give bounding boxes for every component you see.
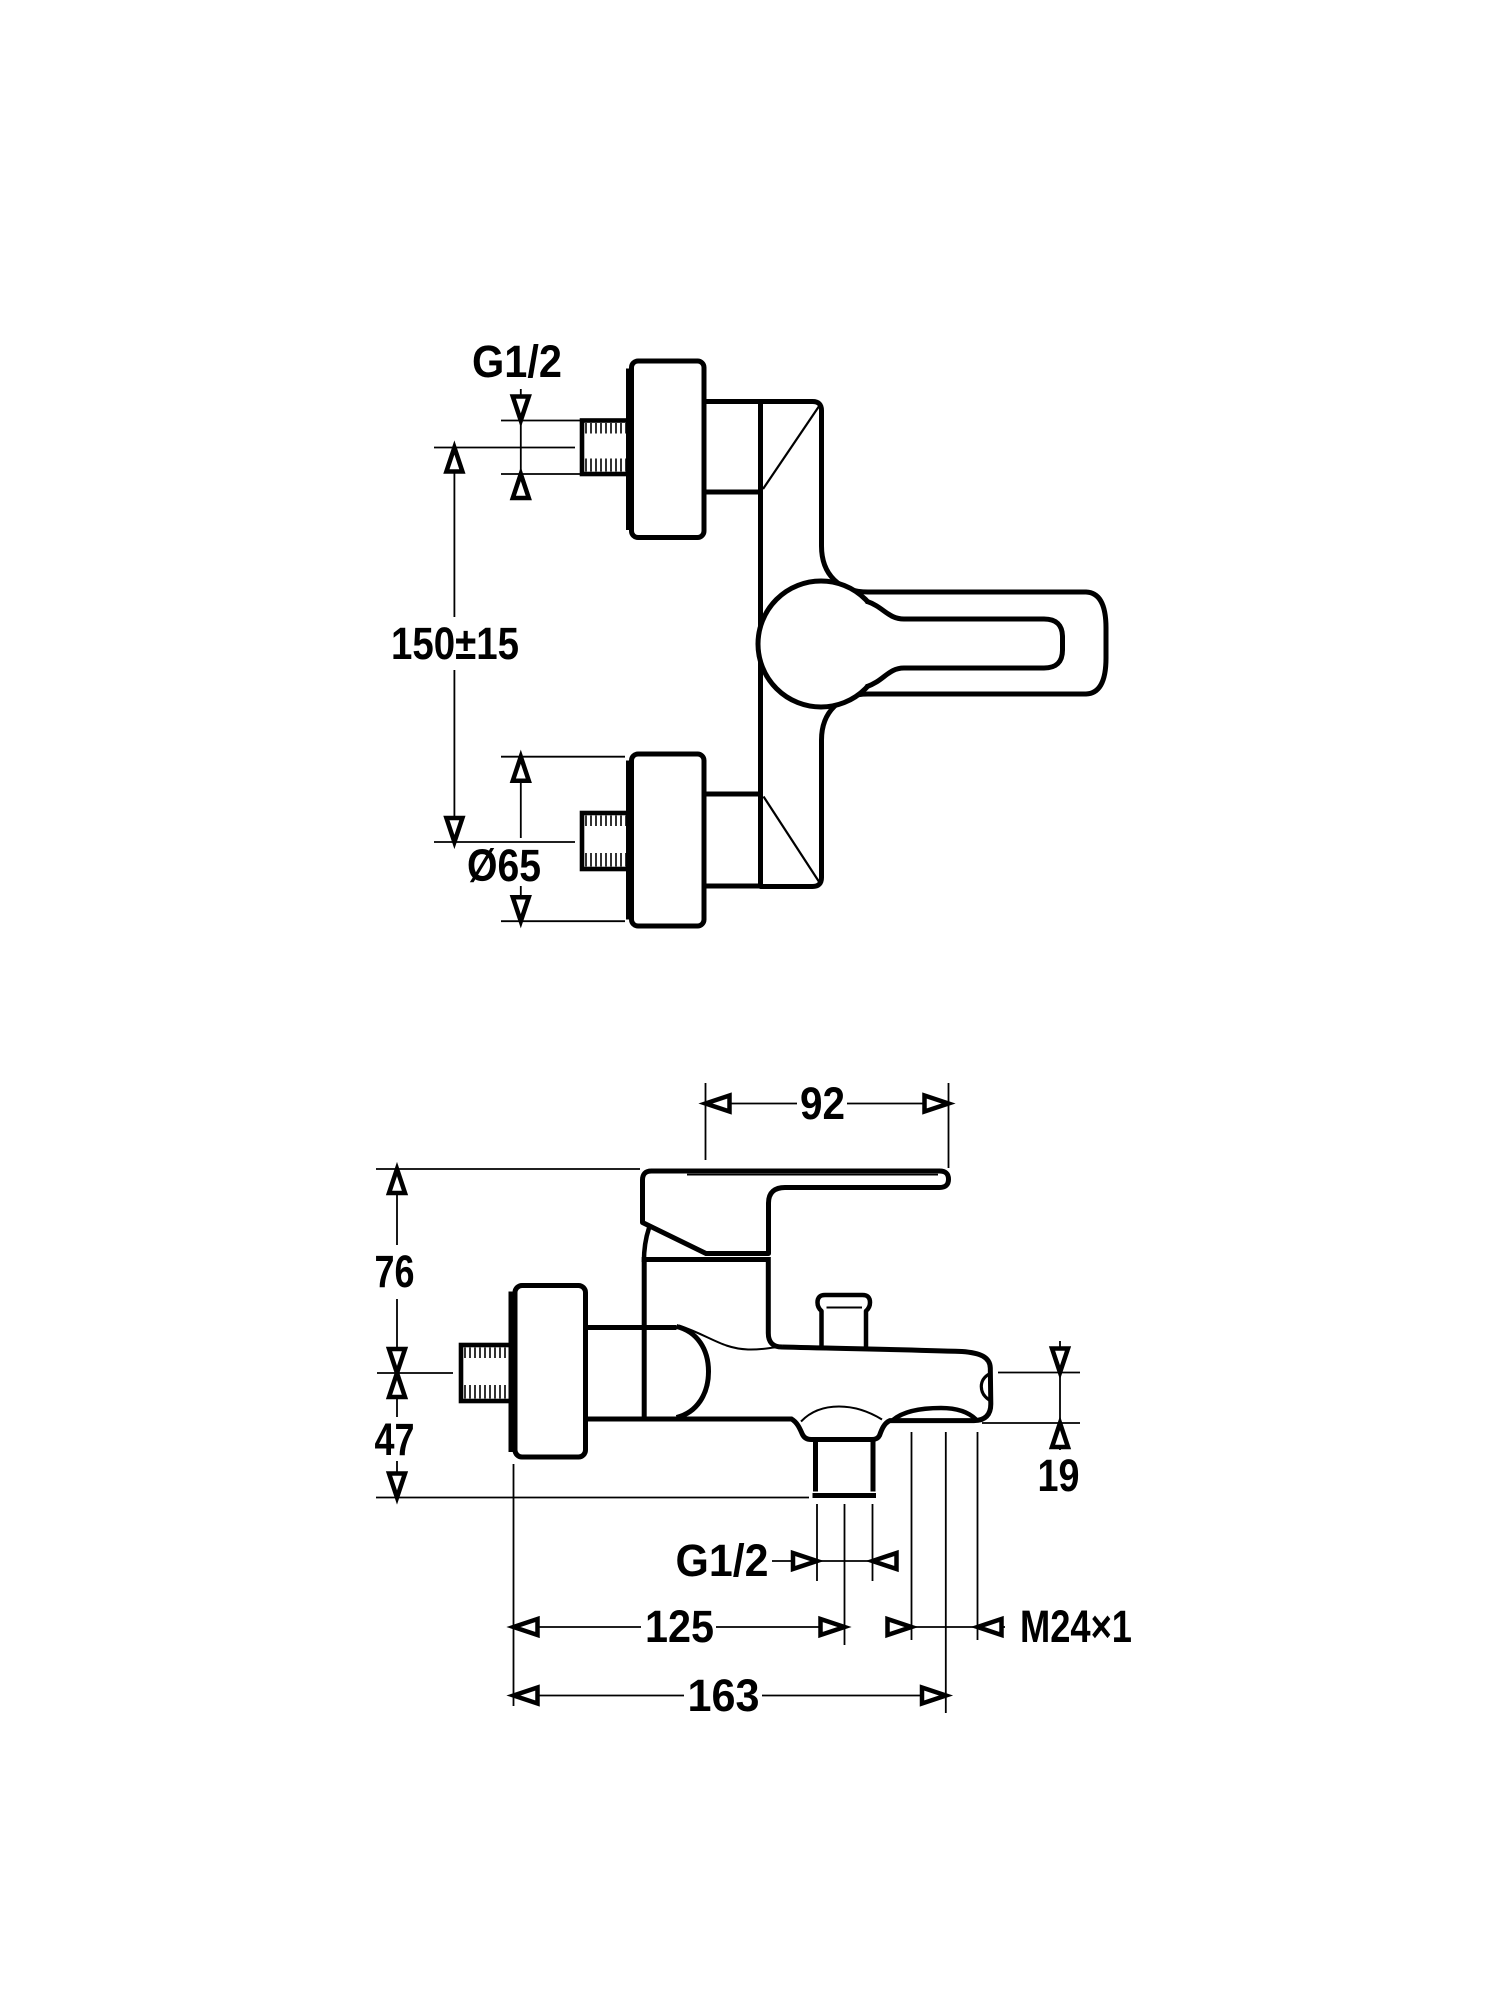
svg-text:76: 76 [375,1246,415,1297]
union connector bottom [704,794,761,886]
wire ext line M24 left [911,1432,913,1640]
nipple side [461,1345,513,1401]
escutcheon side rim [509,1292,516,1453]
spout outlet arch [893,1408,976,1420]
wire dim line G1/2 bottom [772,1560,898,1562]
arrow 92 right [925,1096,949,1112]
wire ext line wall face [513,1464,515,1706]
body transition curve [679,1326,779,1350]
arrow D65 up [513,757,529,781]
nipple top [582,421,629,475]
handle hub cover [862,604,890,684]
wire ext line inlet axis side [377,1372,453,1374]
wire center line shower port [844,1504,846,1645]
neck column [644,1260,782,1419]
shower port sides [816,1441,874,1492]
nipple side threads [465,1348,505,1399]
wire ext line M24 right [977,1432,979,1640]
svg-text:19: 19 [1038,1450,1080,1501]
wire dim line M24x1 [890,1626,1005,1628]
wire dim line D65 vertical [520,757,522,922]
arrow M24 left-pointing [978,1619,1002,1635]
wire ext line escutcheon bottom [501,920,625,922]
arrow G1/2 bottom right-pointing [793,1553,817,1569]
wire ext line 92 left [705,1083,707,1160]
diverter knob body [818,1295,871,1350]
escutcheon bottom [632,754,705,926]
svg-text:163: 163 [688,1670,760,1721]
arrow 92 left [706,1096,730,1112]
wire ext line nipple top [501,420,581,422]
wire ext line spout axis [945,1432,947,1713]
arrow 125 right [821,1619,845,1635]
wire dim line 125 [514,1626,845,1628]
arrow 125 left [514,1619,538,1635]
chamfer diagonal bottom [764,797,820,883]
handle top facet line [687,1174,938,1176]
wire dim line 76-47 vertical [396,1169,398,1498]
shower port bottom [813,1493,877,1498]
escutcheon bottom rim [626,761,633,920]
arrow 163 left [514,1688,538,1704]
svg-text:M24×1: M24×1 [1020,1601,1132,1652]
boss dome over port [801,1407,882,1422]
diverter knob rim line [827,1307,863,1309]
svg-text:Ø65: Ø65 [467,840,541,891]
escutcheon side [515,1286,586,1458]
svg-text:G1/2: G1/2 [472,336,562,387]
wire dim line 92 [710,1103,944,1105]
chamfer diagonal top [763,406,820,490]
svg-text:92: 92 [800,1078,845,1129]
arrow 76 down [389,1349,405,1373]
neck left flare [644,1228,649,1262]
svg-text:47: 47 [375,1414,415,1465]
arrow G1/2 bottom left-pointing [873,1553,897,1569]
wire ext line escutcheon top [501,756,625,758]
wire ext line shower port right [872,1504,874,1581]
arrow D65 down [513,897,529,921]
connector top edge side [585,1325,677,1330]
nipple bottom [582,813,629,869]
lever slot [866,601,1063,687]
arrow 47 up [389,1373,405,1397]
svg-text:G1/2: G1/2 [676,1535,769,1586]
wire ext line spout bottom right [982,1422,1080,1424]
cartridge circle [758,581,884,707]
arrow 47 down [389,1474,405,1498]
wire dim line G1/2 vertical [520,389,522,500]
wire ext line shower port left [816,1504,818,1581]
arrow 19 up [1052,1423,1068,1447]
spout barrel outline [585,1347,991,1440]
wire ext line spout top right [998,1372,1080,1374]
union connector top [704,402,761,493]
wire ext line body bottom side [376,1497,809,1499]
arrow G1/2 up [513,474,529,498]
wire dim line 163 [514,1695,947,1697]
arrow 163 right [922,1688,946,1704]
wire ext line handle top [376,1168,640,1170]
handle side view [643,1171,949,1254]
wire dim line 150 vertical [453,448,455,843]
body cap arc [677,1327,709,1418]
body plate and lever outline [761,402,1107,887]
wire ext line inlet axis bottom [434,841,575,843]
arrow 19 down [1052,1349,1068,1373]
arrow 150 down [446,818,462,842]
nipple bottom threads [586,816,626,867]
arrow M24 right-pointing [888,1619,912,1635]
wire ext line inlet axis top [434,447,575,449]
wire dim line 19 [1059,1341,1061,1450]
escutcheon top rim [626,369,633,531]
wire ext line nipple bottom [501,473,581,475]
wire ext line 92 right [948,1083,950,1168]
arrow 76 up [389,1169,405,1193]
arrow 150 up [446,448,462,472]
arrow G1/2 down [513,397,529,421]
svg-text:150±15: 150±15 [391,618,519,669]
aerator opening [981,1374,990,1401]
nipple top threads [586,423,626,472]
escutcheon top [632,361,705,538]
svg-text:125: 125 [645,1601,714,1652]
